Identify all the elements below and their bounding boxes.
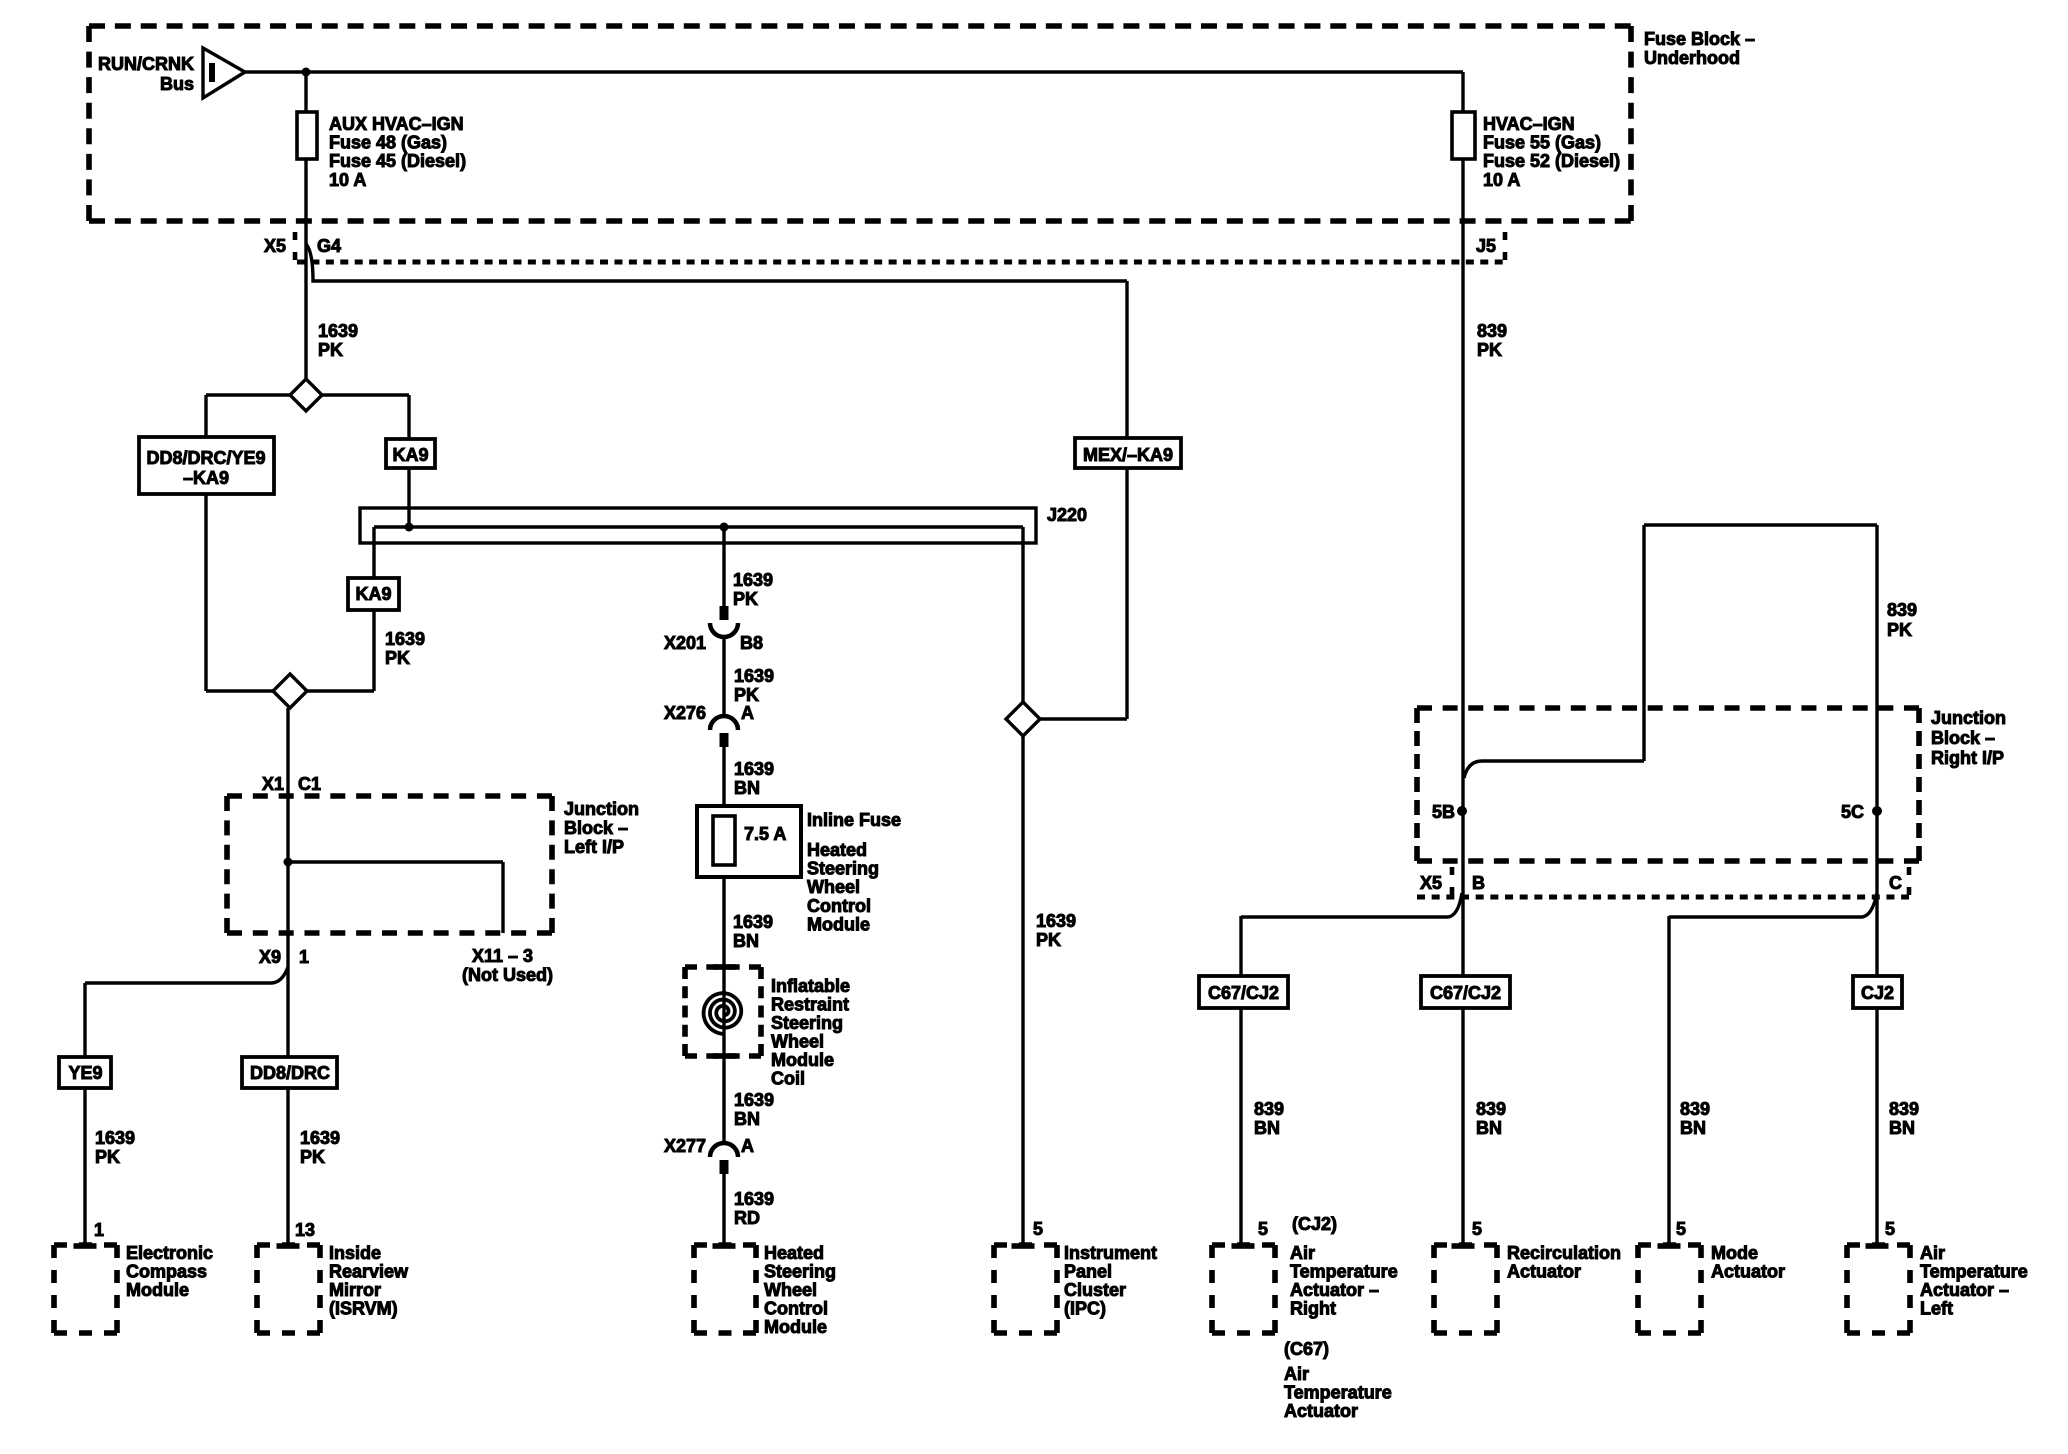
- svg-text:Left: Left: [1920, 1299, 1953, 1319]
- svg-text:Fuse 48 (Gas): Fuse 48 (Gas): [329, 133, 447, 153]
- svg-text:Fuse 45 (Diesel): Fuse 45 (Diesel): [329, 151, 466, 171]
- svg-text:Temperature: Temperature: [1290, 1262, 1398, 1282]
- svg-text:J5: J5: [1476, 236, 1496, 256]
- svg-text:839: 839: [1889, 1099, 1919, 1119]
- svg-text:A: A: [741, 703, 754, 723]
- svg-text:BN: BN: [734, 778, 760, 798]
- svg-text:Temperature: Temperature: [1284, 1383, 1392, 1403]
- svg-text:1639: 1639: [734, 666, 774, 686]
- svg-text:PK: PK: [318, 340, 343, 360]
- svg-text:Actuator –: Actuator –: [1290, 1280, 1379, 1300]
- svg-text:PK: PK: [734, 685, 759, 705]
- svg-text:C1: C1: [298, 774, 321, 794]
- svg-text:X201: X201: [664, 633, 706, 653]
- svg-text:C67/CJ2: C67/CJ2: [1208, 983, 1279, 1003]
- svg-text:Inflatable: Inflatable: [771, 976, 850, 996]
- svg-text:(ISRVM): (ISRVM): [329, 1299, 398, 1319]
- svg-text:(CJ2): (CJ2): [1292, 1214, 1337, 1234]
- svg-text:(Not Used): (Not Used): [462, 965, 553, 985]
- svg-text:Junction: Junction: [1931, 708, 2006, 728]
- svg-text:BN: BN: [1889, 1118, 1915, 1138]
- svg-text:X276: X276: [664, 703, 706, 723]
- svg-text:(IPC): (IPC): [1064, 1299, 1106, 1319]
- svg-text:BN: BN: [733, 931, 759, 951]
- svg-text:Wheel: Wheel: [771, 1032, 824, 1052]
- svg-text:Temperature: Temperature: [1920, 1262, 2028, 1282]
- svg-text:G4: G4: [317, 236, 341, 256]
- svg-text:13: 13: [295, 1220, 315, 1240]
- svg-text:Module: Module: [807, 914, 870, 934]
- svg-text:Inline Fuse: Inline Fuse: [807, 810, 901, 830]
- svg-text:Electronic: Electronic: [126, 1243, 213, 1263]
- svg-text:Right I/P: Right I/P: [1931, 748, 2004, 768]
- svg-text:PK: PK: [95, 1147, 120, 1167]
- svg-text:X277: X277: [664, 1136, 706, 1156]
- svg-text:Air: Air: [1290, 1243, 1315, 1263]
- svg-text:Underhood: Underhood: [1644, 48, 1740, 68]
- svg-text:5: 5: [1258, 1219, 1268, 1239]
- svg-text:7.5 A: 7.5 A: [744, 824, 786, 844]
- svg-text:Module: Module: [764, 1317, 827, 1337]
- svg-text:Wheel: Wheel: [807, 877, 860, 897]
- svg-text:5: 5: [1676, 1219, 1686, 1239]
- svg-text:PK: PK: [300, 1147, 325, 1167]
- svg-text:839: 839: [1680, 1099, 1710, 1119]
- svg-text:BN: BN: [1254, 1118, 1280, 1138]
- svg-text:Inside: Inside: [329, 1243, 381, 1263]
- svg-text:1: 1: [299, 947, 309, 967]
- svg-text:Fuse Block –: Fuse Block –: [1644, 29, 1755, 49]
- svg-text:Control: Control: [764, 1299, 828, 1319]
- svg-text:BN: BN: [734, 1109, 760, 1129]
- svg-text:1639: 1639: [300, 1128, 340, 1148]
- svg-text:MEX/–KA9: MEX/–KA9: [1083, 445, 1173, 465]
- svg-text:Fuse 55 (Gas): Fuse 55 (Gas): [1483, 133, 1601, 153]
- svg-text:10 A: 10 A: [329, 170, 366, 190]
- svg-text:X9: X9: [259, 947, 281, 967]
- svg-text:C: C: [1889, 873, 1902, 893]
- svg-text:1639: 1639: [734, 1090, 774, 1110]
- svg-text:1639: 1639: [318, 321, 358, 341]
- svg-text:B: B: [1472, 873, 1485, 893]
- svg-text:10 A: 10 A: [1483, 170, 1520, 190]
- svg-text:Actuator: Actuator: [1711, 1262, 1785, 1282]
- svg-text:839: 839: [1477, 321, 1507, 341]
- svg-text:BN: BN: [1476, 1118, 1502, 1138]
- svg-text:839: 839: [1476, 1099, 1506, 1119]
- svg-text:BN: BN: [1680, 1118, 1706, 1138]
- svg-text:1639: 1639: [733, 912, 773, 932]
- svg-text:Left I/P: Left I/P: [564, 837, 624, 857]
- svg-text:Heated: Heated: [764, 1243, 824, 1263]
- svg-text:Module: Module: [126, 1280, 189, 1300]
- svg-text:Steering: Steering: [764, 1262, 836, 1282]
- svg-text:PK: PK: [733, 589, 758, 609]
- svg-text:5: 5: [1472, 1219, 1482, 1239]
- svg-text:AUX HVAC–IGN: AUX HVAC–IGN: [329, 114, 464, 134]
- svg-text:DD8/DRC: DD8/DRC: [250, 1063, 330, 1083]
- svg-text:PK: PK: [385, 648, 410, 668]
- svg-text:–KA9: –KA9: [183, 468, 229, 488]
- svg-text:X5: X5: [1420, 873, 1442, 893]
- svg-text:Bus: Bus: [160, 74, 194, 94]
- svg-text:YE9: YE9: [68, 1063, 102, 1083]
- svg-text:Mirror: Mirror: [329, 1280, 381, 1300]
- svg-text:Air: Air: [1284, 1364, 1309, 1384]
- svg-text:Actuator: Actuator: [1507, 1262, 1581, 1282]
- svg-text:(C67): (C67): [1284, 1339, 1329, 1359]
- svg-text:Compass: Compass: [126, 1262, 207, 1282]
- svg-text:839: 839: [1254, 1099, 1284, 1119]
- svg-text:5: 5: [1033, 1219, 1043, 1239]
- svg-text:RD: RD: [734, 1208, 760, 1228]
- svg-text:PK: PK: [1887, 620, 1912, 640]
- svg-text:Actuator –: Actuator –: [1920, 1280, 2009, 1300]
- svg-text:PK: PK: [1036, 930, 1061, 950]
- svg-text:1639: 1639: [95, 1128, 135, 1148]
- svg-text:Panel: Panel: [1064, 1262, 1112, 1282]
- svg-text:B8: B8: [740, 633, 763, 653]
- svg-text:Control: Control: [807, 896, 871, 916]
- svg-text:Air: Air: [1920, 1243, 1945, 1263]
- svg-text:1639: 1639: [385, 629, 425, 649]
- svg-text:KA9: KA9: [355, 584, 391, 604]
- svg-text:Cluster: Cluster: [1064, 1280, 1126, 1300]
- svg-text:5: 5: [1885, 1219, 1895, 1239]
- svg-text:X1: X1: [262, 774, 284, 794]
- svg-text:X11 – 3: X11 – 3: [472, 946, 533, 966]
- svg-text:PK: PK: [1477, 340, 1502, 360]
- svg-text:Recirculation: Recirculation: [1507, 1243, 1621, 1263]
- svg-text:1639: 1639: [734, 1189, 774, 1209]
- svg-text:CJ2: CJ2: [1861, 983, 1894, 1003]
- svg-text:Junction: Junction: [564, 799, 639, 819]
- svg-text:839: 839: [1887, 600, 1917, 620]
- svg-text:Rearview: Rearview: [329, 1262, 409, 1282]
- svg-text:Block –: Block –: [564, 818, 628, 838]
- svg-text:A: A: [741, 1136, 754, 1156]
- svg-text:Instrument: Instrument: [1064, 1243, 1157, 1263]
- svg-text:Module: Module: [771, 1050, 834, 1070]
- svg-text:KA9: KA9: [392, 445, 428, 465]
- svg-text:Actuator: Actuator: [1284, 1401, 1358, 1421]
- svg-text:Right: Right: [1290, 1299, 1336, 1319]
- svg-text:Steering: Steering: [807, 859, 879, 879]
- svg-text:J220: J220: [1047, 505, 1087, 525]
- svg-text:X5: X5: [264, 236, 286, 256]
- svg-text:5C: 5C: [1841, 802, 1864, 822]
- svg-text:RUN/CRNK: RUN/CRNK: [98, 54, 194, 74]
- svg-text:1639: 1639: [1036, 911, 1076, 931]
- svg-text:Restraint: Restraint: [771, 995, 849, 1015]
- svg-text:Coil: Coil: [771, 1069, 805, 1089]
- svg-text:HVAC–IGN: HVAC–IGN: [1483, 114, 1575, 134]
- svg-text:Fuse 52 (Diesel): Fuse 52 (Diesel): [1483, 151, 1620, 171]
- svg-text:5B: 5B: [1432, 802, 1455, 822]
- svg-text:Block –: Block –: [1931, 728, 1995, 748]
- svg-text:C67/CJ2: C67/CJ2: [1430, 983, 1501, 1003]
- svg-text:Mode: Mode: [1711, 1243, 1758, 1263]
- svg-text:1: 1: [94, 1220, 104, 1240]
- svg-text:Heated: Heated: [807, 840, 867, 860]
- svg-text:Steering: Steering: [771, 1013, 843, 1033]
- svg-text:1639: 1639: [734, 759, 774, 779]
- svg-text:Wheel: Wheel: [764, 1280, 817, 1300]
- svg-text:1639: 1639: [733, 570, 773, 590]
- svg-text:DD8/DRC/YE9: DD8/DRC/YE9: [146, 448, 265, 468]
